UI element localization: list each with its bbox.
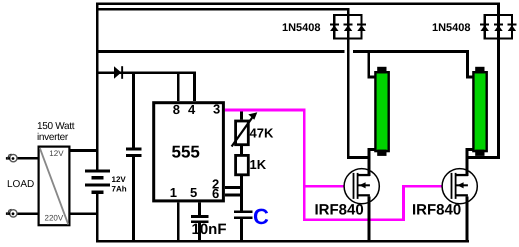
svg-text:150 Watt: 150 Watt bbox=[37, 121, 75, 132]
wire lamp 1 top connection bbox=[367, 53, 375, 79]
wire rail 3 right segment bbox=[353, 50, 469, 53]
svg-text:6: 6 bbox=[212, 186, 219, 201]
svg-text:LOAD: LOAD bbox=[7, 179, 34, 190]
svg-text:12V: 12V bbox=[49, 149, 64, 158]
wire inverter 220V to battery minus bbox=[70, 212, 96, 215]
svg-text:220V: 220V bbox=[45, 213, 64, 222]
capacitor C1 C bbox=[234, 210, 253, 213]
svg-text:IRF840: IRF840 bbox=[412, 202, 461, 219]
wire bottom ground rail bbox=[96, 240, 469, 243]
wire left vertical bus bbox=[96, 3, 99, 170]
svg-text:5: 5 bbox=[190, 185, 197, 200]
wire magenta gate 2 bbox=[405, 185, 442, 188]
wire diode feed line bbox=[97, 71, 196, 74]
wire Q1 source to ground bbox=[367, 196, 370, 242]
wire Q2 source to ground bbox=[465, 196, 468, 242]
svg-text:1N5408: 1N5408 bbox=[282, 22, 321, 34]
wire 555 pin 6 stub bbox=[225, 194, 243, 197]
wire lamp 2 top connection bbox=[466, 53, 474, 79]
svg-text:3: 3 bbox=[213, 102, 220, 117]
node load terminal 2 bbox=[6, 209, 17, 217]
diode group D3 1N5408 x3 bbox=[480, 5, 516, 39]
wire pot to R1 bbox=[240, 146, 243, 154]
svg-text:IRF840: IRF840 bbox=[315, 202, 364, 219]
transistor Q1 IRF840 bbox=[344, 169, 379, 204]
wire inverter 12V to battery bbox=[70, 149, 96, 152]
wire diode group 1 down to lamp 1 bbox=[347, 40, 371, 159]
svg-text:47K: 47K bbox=[250, 126, 274, 141]
svg-text:555: 555 bbox=[172, 142, 200, 161]
svg-text:1N5408: 1N5408 bbox=[432, 22, 471, 34]
lamp 1 tube bbox=[375, 67, 388, 156]
wire diode group 2 down to lamp 2 bbox=[465, 40, 500, 159]
wire magenta pin3 output bbox=[225, 109, 306, 112]
capacitor C2 100n bbox=[126, 147, 141, 150]
wire load terminal top bbox=[17, 157, 38, 160]
resistor VR1 47K bbox=[232, 112, 258, 146]
svg-text:4: 4 bbox=[188, 102, 196, 117]
resistor R1 1K bbox=[236, 155, 249, 174]
wire lamp 2 bottom to drain bbox=[465, 148, 474, 176]
wire 555 pin 5 bbox=[198, 202, 201, 215]
wire R1 to C cap bbox=[240, 176, 243, 210]
inverter box T1 bbox=[39, 147, 70, 226]
wire 555 pin 2 stub bbox=[225, 186, 243, 189]
diode group D2 1N5408 x3 bbox=[330, 8, 366, 40]
svg-text:8: 8 bbox=[173, 102, 180, 117]
wire pot top stub bbox=[240, 111, 243, 119]
node load terminal 1 bbox=[6, 154, 17, 162]
wire rail 3 left segment bbox=[96, 50, 344, 53]
svg-text:12V: 12V bbox=[112, 175, 127, 184]
wire lamp 1 bottom to drain bbox=[367, 148, 376, 176]
wire decoupling cap branch bbox=[132, 74, 135, 147]
transistor Q2 IRF840 bbox=[442, 169, 477, 204]
wire magenta vertical drop bbox=[303, 109, 306, 221]
op-amp U1 555 timer box bbox=[154, 103, 224, 201]
wire magenta gate 1 bbox=[306, 185, 345, 188]
wire 555 pin 4 bbox=[193, 71, 196, 101]
diode D1 bbox=[114, 66, 123, 79]
capacitor C3 10nF bbox=[191, 215, 209, 218]
svg-text:inverter: inverter bbox=[37, 132, 69, 143]
wire load terminal bottom bbox=[17, 213, 38, 216]
wire magenta bottom run bbox=[303, 218, 405, 221]
wire top rail 1 bbox=[96, 3, 500, 6]
svg-text:10nF: 10nF bbox=[192, 221, 227, 238]
wire magenta vertical rise bbox=[402, 185, 405, 221]
wire 555 pin 8 bbox=[177, 74, 180, 101]
svg-text:7Ah: 7Ah bbox=[112, 185, 127, 194]
svg-text:C: C bbox=[253, 204, 269, 229]
svg-text:1K: 1K bbox=[250, 157, 267, 172]
lamp 2 tube bbox=[473, 67, 486, 156]
wire 555 pin 1 to ground bbox=[177, 202, 180, 240]
wire rail 2 bbox=[96, 8, 349, 11]
battery B1 12V 7Ah bbox=[85, 169, 110, 194]
svg-text:1: 1 bbox=[170, 185, 177, 200]
